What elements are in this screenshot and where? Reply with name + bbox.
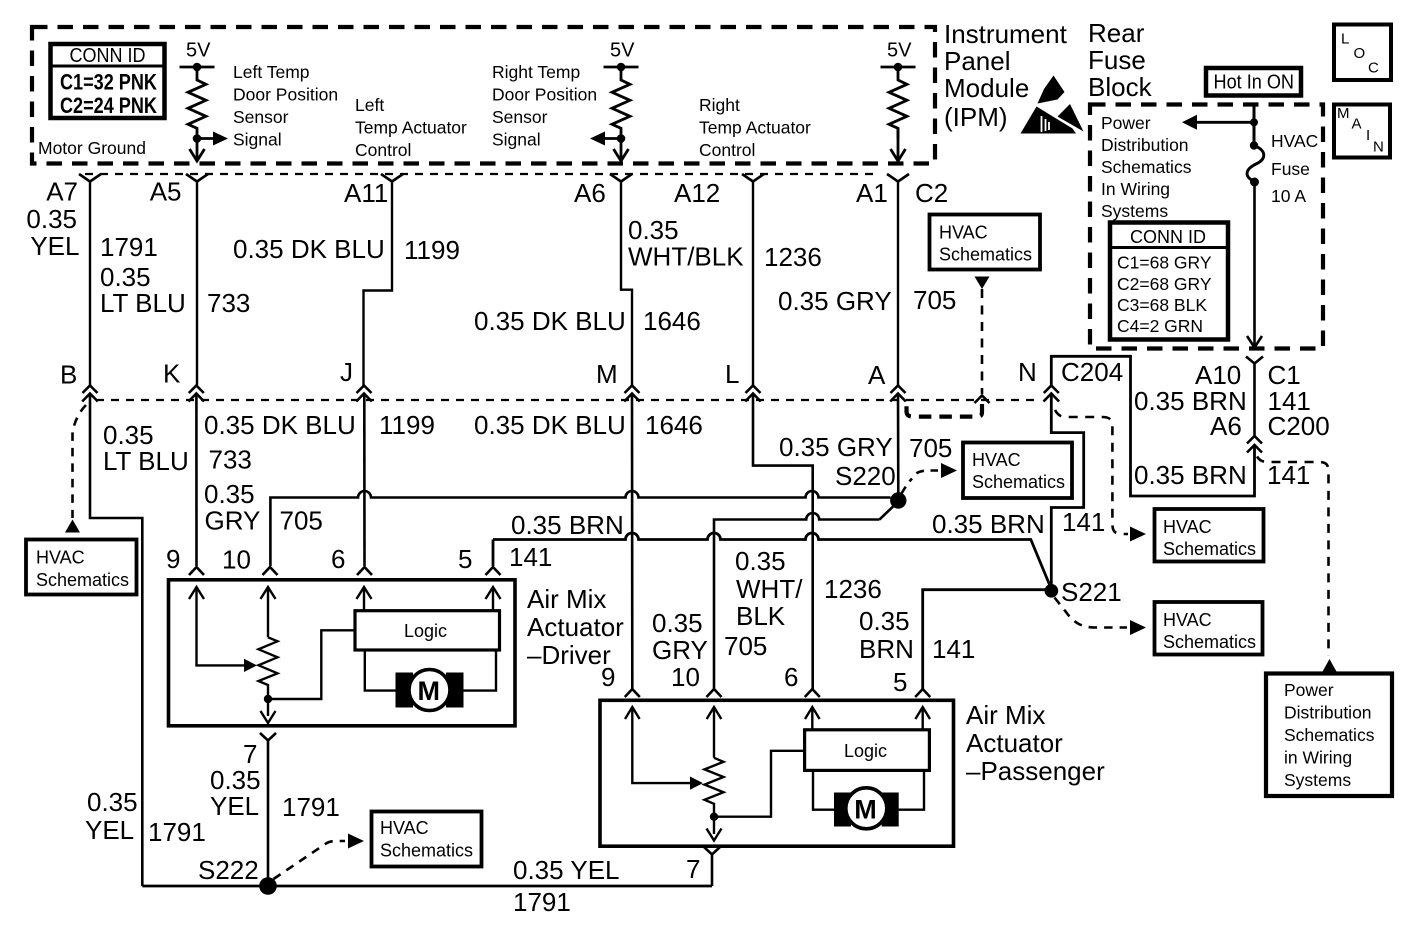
svg-text:1236: 1236 (824, 574, 882, 604)
arrow to pin 7 (passenger) (707, 817, 722, 841)
svg-text:A1: A1 (856, 178, 888, 208)
svg-text:C200: C200 (1268, 411, 1330, 441)
svg-text:J: J (340, 357, 353, 387)
svg-text:YEL: YEL (30, 231, 79, 261)
wire pot to logic (268, 630, 355, 699)
dashed hidden wire (A to HVAC ref) (907, 404, 983, 417)
pin 10 chevron (passenger) (707, 689, 722, 697)
svg-text:Power: Power (1284, 680, 1334, 700)
svg-text:A6: A6 (574, 178, 606, 208)
svg-text:733: 733 (207, 288, 250, 318)
svg-text:LT BLU: LT BLU (100, 288, 186, 318)
svg-text:Power: Power (1101, 113, 1151, 133)
svg-text:705: 705 (280, 506, 323, 536)
title Instrument Panel Module (IPM) (944, 19, 1068, 132)
svg-text:Rear: Rear (1088, 18, 1145, 48)
chevron on dashed at connector row (975, 396, 990, 404)
HVAC Schematics ref box 3 (1155, 509, 1264, 562)
svg-text:0.35 GRY: 0.35 GRY (778, 286, 892, 316)
svg-text:in Wiring: in Wiring (1284, 748, 1352, 768)
svg-text:HVAC: HVAC (972, 450, 1021, 470)
potentiometer (passenger) (705, 758, 724, 817)
pin 6 chevron (passenger) (805, 689, 820, 697)
svg-text:Fuse: Fuse (1271, 159, 1310, 179)
svg-text:0.35 DK BLU: 0.35 DK BLU (204, 410, 356, 440)
motor M (driver) (396, 670, 464, 711)
svg-text:5: 5 (458, 544, 472, 574)
wire K down to driver pin 9 (195, 394, 198, 567)
svg-text:0.35 DK BLU: 0.35 DK BLU (474, 410, 626, 440)
connector A1/C2 (Y) (887, 174, 909, 386)
label Right Temp Actuator Control (699, 95, 811, 160)
svg-text:GRY: GRY (652, 635, 708, 665)
svg-text:1791: 1791 (148, 817, 206, 847)
svg-text:141: 141 (1267, 460, 1310, 490)
Hot In ON box (1206, 68, 1301, 96)
5V source (actuator control) (881, 40, 916, 72)
svg-text:5: 5 (893, 667, 907, 697)
pin 7 connector (Y below box) (260, 733, 276, 886)
HVAC Schematics ref box 5 (1155, 602, 1263, 655)
internal arrow pin 6 to logic (passenger) (805, 707, 820, 730)
label Left Temp Actuator Control (355, 95, 467, 160)
svg-text:Temp Actuator: Temp Actuator (699, 118, 811, 138)
internal arrow pin 9 to wiper (passenger) (625, 707, 703, 790)
svg-text:C1=68 GRY: C1=68 GRY (1117, 253, 1212, 273)
svg-text:705: 705 (913, 285, 956, 315)
svg-text:A11: A11 (344, 178, 388, 208)
CONN ID table (fuse block) (1110, 223, 1228, 340)
pin 7 connector (passenger, Y below box) (704, 847, 720, 886)
HVAC Schematics ref box 1 (top right) (930, 215, 1041, 270)
potentiometer (driver) (259, 637, 278, 699)
connector L (double chevron) (745, 386, 761, 402)
svg-text:10 A: 10 A (1271, 186, 1306, 206)
logic box (driver) (355, 611, 500, 650)
svg-text:Logic: Logic (404, 621, 447, 641)
svg-text:WHT/: WHT/ (736, 574, 803, 604)
svg-text:M: M (854, 794, 877, 824)
svg-text:0.35: 0.35 (859, 606, 910, 636)
svg-text:A: A (868, 360, 886, 390)
svg-text:0.35: 0.35 (628, 215, 679, 245)
connector A12 (Y) (742, 174, 764, 386)
svg-text:Systems: Systems (1284, 770, 1351, 790)
svg-text:Schematics: Schematics (1163, 539, 1256, 559)
connector A5 (Y) (186, 174, 208, 386)
svg-text:–Driver: –Driver (527, 640, 611, 670)
svg-text:A12: A12 (674, 178, 720, 208)
connector row 2 dashed line (96, 399, 1041, 401)
MAIN box (1334, 105, 1390, 158)
svg-text:WHT/BLK: WHT/BLK (628, 242, 744, 272)
svg-text:5V: 5V (186, 40, 211, 62)
junction dot + signal arrow right (193, 132, 228, 146)
svg-text:Temp Actuator: Temp Actuator (355, 118, 467, 138)
fuse HVAC Fuse 10A (1247, 141, 1264, 186)
svg-text:5V: 5V (887, 40, 912, 62)
connector B (double chevron) (82, 386, 98, 402)
title Rear Fuse Block (1088, 18, 1153, 102)
5V source (right sensor divider) (604, 40, 639, 72)
svg-text:1791: 1791 (282, 792, 340, 822)
svg-text:0.35 DK BLU: 0.35 DK BLU (233, 234, 385, 264)
svg-text:CONN ID: CONN ID (70, 45, 146, 67)
arrow up toward dashed (Power Distribution ref) (1322, 659, 1337, 673)
svg-text:C: C (1368, 60, 1379, 77)
svg-text:Hot In ON: Hot In ON (1214, 72, 1295, 94)
HVAC Schematics ref box 2 (right of S220) (963, 443, 1072, 499)
svg-text:L: L (1341, 31, 1349, 48)
svg-text:N: N (1373, 139, 1384, 156)
svg-text:I: I (1366, 127, 1370, 144)
5V source (left sensor divider) (180, 40, 215, 72)
svg-text:1199: 1199 (379, 410, 435, 440)
dashed lead from S221 to HVAC ref 5 (1055, 598, 1147, 636)
internal arrow pin 10 to potentiometer (261, 587, 276, 637)
pin 6 chevron (357, 567, 372, 575)
connector A7 (Y) (79, 174, 101, 386)
svg-text:B: B (60, 360, 77, 390)
logic box (passenger) (805, 730, 930, 771)
CONN ID table (IPM) (51, 44, 165, 118)
svg-text:C2=24 PNK: C2=24 PNK (60, 93, 157, 118)
svg-text:Systems: Systems (1101, 201, 1168, 221)
svg-text:9: 9 (601, 662, 615, 692)
rail D (S221 to passenger pin 5) (923, 590, 1046, 689)
svg-text:Schematics: Schematics (939, 244, 1032, 264)
arrow up (HVAC ref 4) (65, 520, 80, 533)
HVAC Schematics ref box 6 (372, 812, 482, 867)
svg-text:1791: 1791 (513, 887, 571, 917)
wire down with arrow into connector (A1) (891, 128, 906, 161)
svg-text:Module: Module (944, 73, 1029, 103)
svg-text:A7: A7 (46, 177, 78, 207)
connector K (double chevron) (189, 386, 205, 402)
Rear Fuse Block dashed box (1090, 105, 1323, 349)
svg-text:10: 10 (222, 545, 251, 575)
svg-text:C3=68 BLK: C3=68 BLK (1117, 295, 1207, 315)
svg-text:K: K (163, 359, 181, 389)
svg-text:0.35 BRN: 0.35 BRN (511, 510, 624, 540)
svg-text:Left: Left (355, 95, 384, 115)
label Air Mix Actuator -Driver (527, 584, 624, 670)
svg-text:0.35: 0.35 (87, 787, 138, 817)
svg-text:0.35 BRN: 0.35 BRN (1134, 460, 1247, 490)
dashed lead + arrow into HVAC box 2 from S220 (902, 463, 958, 494)
svg-text:M: M (596, 359, 618, 389)
wire L jog right down to passenger pin 6 (753, 394, 813, 690)
connector M (double chevron) (624, 386, 640, 402)
wire M down to passenger pin 9 (631, 394, 634, 690)
svg-text:Schematics: Schematics (1163, 632, 1256, 652)
note Power Distribution Schematics In Wiring Systems (1101, 113, 1192, 221)
svg-text:Schematics: Schematics (36, 570, 129, 590)
svg-text:141: 141 (1062, 507, 1105, 537)
junction dot + signal arrow left (590, 132, 625, 146)
svg-text:HVAC: HVAC (1163, 517, 1212, 537)
svg-text:HVAC: HVAC (939, 222, 988, 242)
svg-text:Distribution: Distribution (1284, 703, 1372, 723)
connector A (double chevron) (890, 386, 906, 402)
svg-text:Logic: Logic (844, 741, 887, 761)
svg-text:(IPM): (IPM) (944, 102, 1008, 132)
svg-text:Actuator: Actuator (527, 612, 624, 642)
resistor (actuator control pull-up) (889, 67, 907, 139)
svg-text:Control: Control (699, 140, 755, 160)
svg-text:6: 6 (331, 544, 345, 574)
svg-text:S221: S221 (1061, 577, 1122, 607)
svg-text:M: M (418, 676, 441, 706)
svg-text:0.35 DK BLU: 0.35 DK BLU (474, 306, 626, 336)
svg-text:C2: C2 (915, 178, 948, 208)
connector A6 (Y) (610, 174, 632, 386)
svg-text:0.35 GRY: 0.35 GRY (779, 432, 893, 462)
svg-text:GRY: GRY (205, 505, 261, 535)
wire fuse to A10 with arrow (1247, 182, 1262, 348)
svg-text:10: 10 (671, 662, 700, 692)
arrow into HVAC box 3 (1130, 527, 1146, 542)
svg-text:5V: 5V (610, 40, 635, 62)
svg-text:1199: 1199 (404, 235, 460, 265)
svg-text:0.35: 0.35 (26, 204, 77, 234)
resistor (left temp door position sensor) (188, 67, 206, 139)
svg-text:733: 733 (209, 445, 252, 475)
connector C200 (double chevron) (1247, 436, 1262, 453)
svg-text:141: 141 (509, 542, 552, 572)
svg-text:Right: Right (699, 95, 740, 115)
resistor (right temp door position sensor) (612, 67, 630, 139)
svg-text:Air Mix: Air Mix (527, 584, 606, 614)
wire from Hot In ON down (1253, 105, 1256, 147)
svg-text:Signal: Signal (492, 130, 541, 150)
svg-text:A: A (1352, 116, 1362, 133)
svg-text:Distribution: Distribution (1101, 135, 1189, 155)
dashed hidden wire B to HVAC ref 4 (73, 405, 87, 518)
svg-text:C4=2 GRN: C4=2 GRN (1117, 316, 1203, 336)
pin 5 chevron (passenger) (915, 689, 930, 697)
passenger actuator box (600, 700, 954, 846)
svg-text:BRN: BRN (859, 634, 914, 664)
svg-text:HVAC: HVAC (380, 818, 429, 838)
svg-text:In Wiring: In Wiring (1101, 179, 1170, 199)
Power Distribution Schematics ref box (1266, 674, 1392, 797)
internal arrow pin 5 to logic (486, 587, 501, 611)
svg-text:Control: Control (355, 140, 411, 160)
bottom rail 1791 YEL (142, 885, 712, 888)
svg-text:C204: C204 (1061, 357, 1123, 387)
svg-text:N: N (1018, 357, 1037, 387)
motor M (passenger) (834, 788, 899, 829)
dashed lead S222 to HVAC ref 6 (274, 834, 365, 880)
connector A10/C1 (Y) (1246, 357, 1263, 437)
svg-text:LT BLU: LT BLU (103, 446, 189, 476)
svg-text:Schematics: Schematics (972, 472, 1065, 492)
svg-text:S222: S222 (198, 855, 259, 885)
svg-text:Schematics: Schematics (1284, 725, 1375, 745)
svg-text:7: 7 (686, 854, 700, 884)
LOC box (1334, 25, 1391, 81)
svg-text:A6: A6 (1210, 411, 1242, 441)
label Air Mix Actuator -Passenger (966, 700, 1105, 786)
svg-text:–Passenger: –Passenger (966, 756, 1105, 786)
splice S221 (1045, 584, 1059, 598)
connector A11 (Y) (364, 174, 404, 386)
dashed hidden wire C200 to Power Distribution ref (1257, 457, 1329, 657)
svg-text:Sensor: Sensor (233, 107, 289, 127)
svg-text:1791: 1791 (100, 232, 158, 262)
svg-text:Sensor: Sensor (492, 107, 548, 127)
connector N C204 (double chevron) (1044, 386, 1060, 402)
svg-text:Signal: Signal (233, 130, 282, 150)
svg-text:0.35: 0.35 (735, 546, 786, 576)
svg-text:Motor Ground: Motor Ground (38, 138, 146, 158)
svg-text:9: 9 (166, 544, 180, 574)
svg-text:HVAC: HVAC (1163, 610, 1212, 630)
internal arrow pin 5 to logic (passenger) (915, 707, 930, 730)
pin 9 chevron (189, 567, 204, 575)
wire down with arrow into connector (A6) (614, 139, 629, 162)
svg-text:141: 141 (932, 634, 975, 664)
wire C200 down-left-up to N (circuit 141 BRN) (1051, 356, 1254, 496)
svg-text:L: L (725, 359, 739, 389)
label HVAC Fuse 10 A (1271, 131, 1318, 206)
svg-text:Actuator: Actuator (966, 728, 1063, 758)
wire N to S221 (jog around HVAC box) (1051, 394, 1083, 589)
junction dot below pot (passenger) (710, 813, 718, 821)
svg-text:0.35 BRN: 0.35 BRN (932, 509, 1045, 539)
wire B down, jog right, down to bottom rail (90, 394, 142, 887)
junction dot below pot (264, 695, 272, 703)
svg-text:O: O (1354, 45, 1366, 62)
pin 5 chevron (486, 567, 501, 575)
svg-text:HVAC: HVAC (1271, 131, 1318, 151)
HVAC Schematics ref box 4 (26, 540, 137, 595)
rail C (S220 to passenger pin 10) (714, 502, 898, 690)
svg-text:CONN ID: CONN ID (1130, 227, 1206, 247)
svg-text:1646: 1646 (645, 410, 703, 440)
wires logic to motor (driver) (365, 650, 396, 691)
svg-text:0.35 YEL: 0.35 YEL (513, 855, 620, 885)
svg-text:YEL: YEL (85, 815, 134, 845)
svg-text:YEL: YEL (210, 791, 259, 821)
svg-text:Door Position: Door Position (492, 85, 597, 105)
svg-text:705: 705 (909, 433, 952, 463)
svg-text:A5: A5 (150, 177, 182, 207)
internal arrow pin 6 to logic (357, 587, 372, 611)
driver actuator box (169, 580, 516, 726)
wire A down to S220 (897, 394, 900, 497)
ESD sensitive symbol (1021, 76, 1084, 134)
svg-text:Schematics: Schematics (1101, 157, 1192, 177)
wires logic to motor (passenger) (813, 770, 834, 809)
pin 9 chevron (passenger) (625, 689, 640, 697)
svg-text:0.35: 0.35 (652, 608, 703, 638)
wire J down to driver pin 6 (363, 394, 366, 567)
wire down with arrow into connector (A5) (190, 139, 205, 162)
arrow to power distribution note (1182, 115, 1258, 130)
internal arrow pin 9 to wiper (189, 587, 257, 672)
svg-text:Air Mix: Air Mix (966, 700, 1045, 730)
rail B (141 BRN driver pin 5 to S221) (493, 533, 1051, 587)
svg-text:BLK: BLK (736, 601, 786, 631)
svg-text:C1=32 PNK: C1=32 PNK (60, 70, 157, 95)
svg-text:Left Temp: Left Temp (233, 62, 310, 82)
svg-text:S220: S220 (835, 461, 896, 491)
svg-text:Panel: Panel (944, 46, 1011, 76)
connector row 1 dashed line (85, 173, 880, 175)
dashed lead w/ down arrow from HVAC box 1 (975, 277, 990, 395)
svg-text:6: 6 (784, 662, 798, 692)
label Right Temp Door Position Sensor Signal (492, 62, 597, 150)
pin 10 chevron (263, 567, 278, 575)
svg-text:Right Temp: Right Temp (492, 62, 580, 82)
svg-text:Schematics: Schematics (380, 841, 473, 861)
internal arrow pin 10 to potentiometer (passenger) (707, 707, 722, 758)
svg-text:C2=68 GRY: C2=68 GRY (1117, 274, 1212, 294)
splice S220 (890, 492, 906, 508)
label Left Temp Door Position Sensor Signal (233, 62, 338, 150)
svg-text:Fuse: Fuse (1088, 45, 1146, 75)
svg-text:1236: 1236 (764, 242, 822, 272)
svg-text:1646: 1646 (643, 306, 701, 336)
connector J (double chevron) (356, 386, 372, 402)
rail A (705 GRY to driver pin 10) (270, 491, 898, 566)
arrow to pin 7 (motor ground) (261, 699, 276, 723)
IPM dashed box (32, 27, 935, 164)
svg-text:HVAC: HVAC (36, 548, 85, 568)
svg-text:Block: Block (1088, 72, 1153, 102)
svg-text:M: M (1337, 105, 1350, 122)
svg-text:Door Position: Door Position (233, 85, 338, 105)
svg-text:705: 705 (724, 631, 767, 661)
svg-text:Instrument: Instrument (944, 19, 1068, 49)
splice S222 (259, 877, 277, 895)
dashed hidden wire N/C204 to HVAC ref 3 (1055, 410, 1128, 534)
wire pot to logic (passenger) (714, 751, 805, 817)
